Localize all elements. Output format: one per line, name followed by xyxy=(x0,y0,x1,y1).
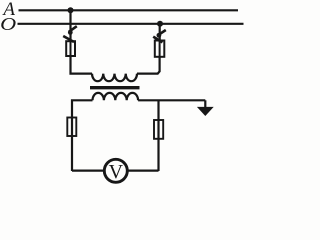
wire: bus A xyxy=(19,9,239,11)
wire: bus O xyxy=(18,23,244,25)
wire: left drop from bus A xyxy=(69,10,71,42)
wire: ground branch vertical xyxy=(204,100,206,108)
node A label xyxy=(1,0,15,20)
wire: bottom left xyxy=(72,169,104,171)
wire: secondary right lead to ground branch xyxy=(138,99,205,101)
fuse FU2 xyxy=(155,40,165,58)
switch QS1 xyxy=(63,26,77,42)
node O label xyxy=(0,14,16,34)
wire: FU1 to primary winding xyxy=(71,56,93,74)
transformer TV secondary winding xyxy=(93,93,139,100)
wire: right leg down xyxy=(157,100,159,171)
fuse FU3 xyxy=(67,118,76,137)
ground xyxy=(197,107,214,116)
svg-text:V: V xyxy=(109,161,124,183)
svg-text:O: O xyxy=(0,14,16,34)
transformer TV primary winding xyxy=(92,74,137,82)
voltmeter PV xyxy=(104,159,127,183)
switch QS2 xyxy=(153,30,166,42)
fuse FU4 xyxy=(154,120,163,139)
wire: FU2 to primary winding xyxy=(137,57,160,74)
wire: right drop from bus O xyxy=(159,24,161,42)
junction dot on bus A xyxy=(68,7,74,13)
wire: bottom right xyxy=(128,169,158,171)
wire: secondary left lead xyxy=(72,100,93,171)
fuse FU1 xyxy=(66,40,75,58)
junction dot on bus O xyxy=(157,21,163,27)
transformer TV core xyxy=(90,86,140,89)
